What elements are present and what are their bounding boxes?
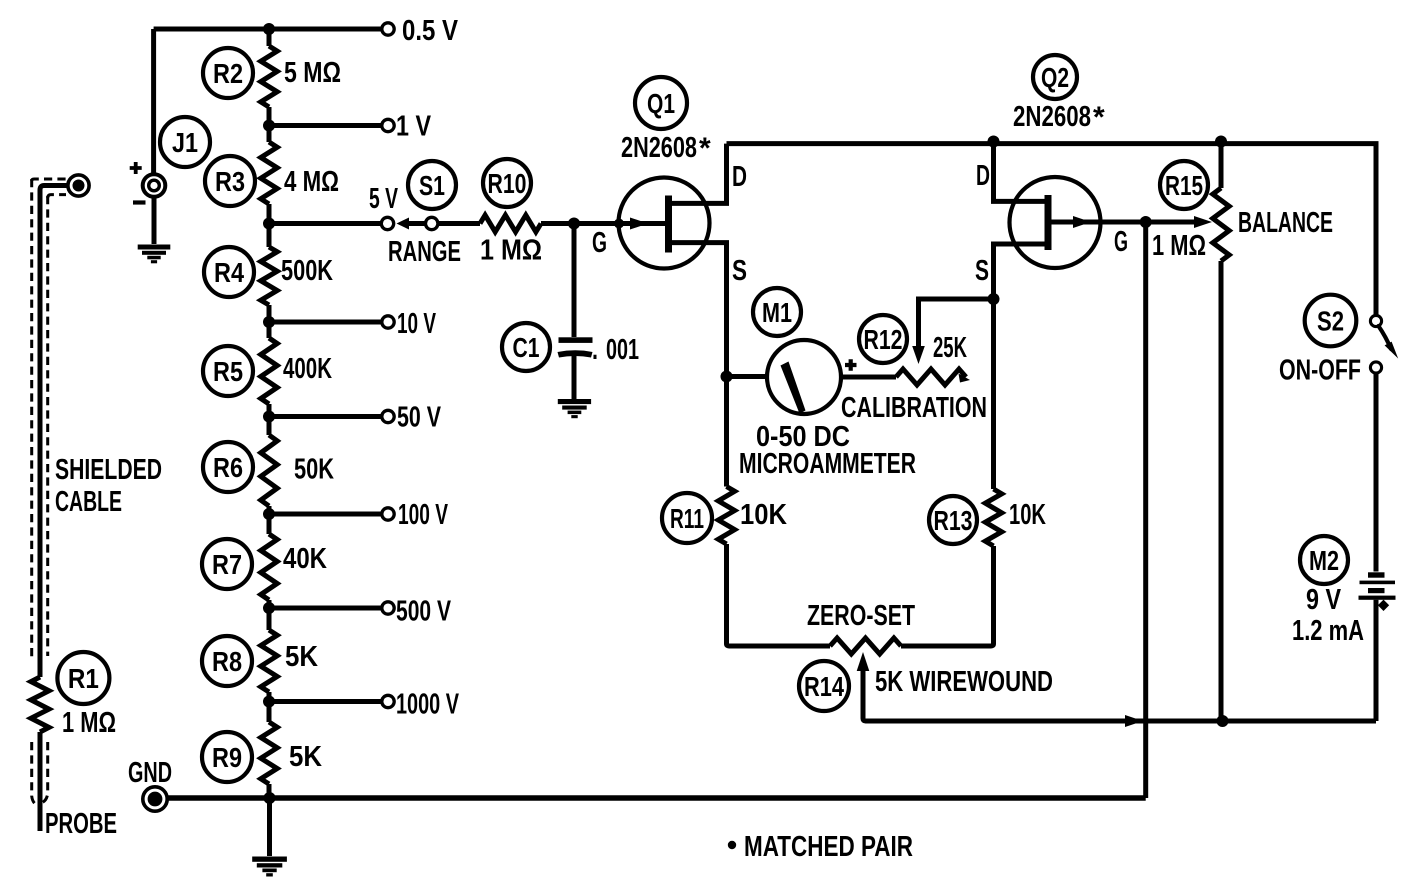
meter M1 designator — [753, 288, 801, 336]
svg-text:1000 V: 1000 V — [396, 689, 459, 721]
wire top rail to J1 — [154, 29, 269, 174]
svg-text:2N2608: 2N2608 — [621, 132, 697, 164]
wire S2 to battery — [1374, 373, 1379, 571]
wire Q2 gate to GND bus — [1143, 222, 1148, 798]
resistor R11 — [718, 487, 734, 545]
svg-text:R2: R2 — [213, 58, 243, 89]
svg-text:R15: R15 — [1165, 170, 1203, 201]
battery M2 — [1359, 572, 1396, 611]
node meter junction — [721, 371, 733, 383]
terminal 10 V — [382, 316, 394, 328]
meter M1 body — [767, 340, 841, 414]
transistor Q2 source lead — [994, 244, 1049, 299]
resistor R1 — [31, 677, 49, 732]
wire tap 100 V — [269, 512, 382, 517]
switch S1 designator — [408, 161, 456, 209]
svg-text:10 V: 10 V — [397, 308, 436, 340]
arrow on Q1 gate — [630, 218, 648, 230]
wire R13 to zero-set loop — [901, 546, 994, 646]
wire tap 0.5 V — [269, 27, 382, 32]
switch S1 wiper arrow — [397, 218, 410, 230]
node R15 bottom junction — [1217, 715, 1229, 727]
resistor R3 — [261, 142, 277, 204]
resistor R12 — [896, 369, 966, 385]
svg-text:1 V: 1 V — [396, 111, 432, 143]
node rail Q2 drain — [988, 136, 1000, 148]
svg-text:R9: R9 — [212, 742, 242, 773]
resistor R2 — [261, 46, 277, 107]
svg-text:400K: 400K — [283, 353, 332, 385]
resistor R5 — [261, 338, 277, 404]
wire node to C1 — [572, 224, 577, 338]
node tap 1 V — [263, 120, 275, 132]
svg-text:M2: M2 — [1309, 545, 1339, 576]
resistor R4 designator — [204, 247, 254, 297]
resistor R15 — [1213, 188, 1229, 261]
node tap 50 V — [263, 411, 275, 423]
value .001 (C1) — [592, 334, 639, 366]
svg-text:25K: 25K — [933, 332, 967, 364]
transistor Q1 designator — [635, 77, 687, 129]
svg-text:D: D — [976, 160, 990, 192]
svg-text:CABLE: CABLE — [55, 486, 122, 518]
svg-text:5K: 5K — [285, 641, 318, 673]
label SHIELDED CABLE — [55, 454, 162, 518]
svg-text:S: S — [732, 255, 747, 287]
node 5V tap — [263, 218, 275, 230]
transistor Q2 designator — [1033, 55, 1077, 99]
transistor Q1 drain lead — [669, 144, 727, 204]
resistor R8 designator — [202, 636, 252, 686]
wire tap 10 V — [269, 320, 382, 325]
node tap 1000 V — [263, 696, 275, 708]
wire R14 wiper to bottom rail — [863, 666, 1376, 721]
resistor R8 — [261, 630, 277, 692]
label 2N2608* (Q1) — [621, 132, 711, 165]
capacitor C1 designator — [502, 323, 550, 371]
resistor R10 — [480, 215, 541, 232]
plus mark at meter — [845, 359, 857, 370]
svg-text:R6: R6 — [213, 452, 243, 483]
svg-text:4 MΩ: 4 MΩ — [284, 166, 339, 198]
wire Q2 source to R13 — [991, 299, 996, 489]
wire J1 to ground — [152, 197, 157, 244]
resistor R9 designator — [202, 732, 252, 782]
node tap 100 V — [263, 508, 275, 520]
node Q1 gate entry — [614, 219, 624, 229]
wire R11 to zero-set loop — [727, 544, 831, 646]
svg-text:50K: 50K — [294, 454, 334, 486]
wire probe lead below R1 — [38, 732, 43, 831]
node tap 10 V — [263, 316, 275, 328]
plus mark at J1 — [130, 162, 142, 174]
resistor R13 — [985, 489, 1001, 546]
transistor Q1 body — [619, 178, 710, 269]
resistor R1 designator — [57, 652, 109, 704]
svg-text:.: . — [592, 334, 598, 366]
wire divider to bottom ground — [267, 798, 272, 856]
ground at divider bottom — [252, 857, 287, 877]
svg-text:SHIELDED: SHIELDED — [55, 454, 162, 486]
svg-text:CALIBRATION: CALIBRATION — [841, 392, 987, 424]
resistor R13 designator — [929, 496, 977, 544]
wire C1 to ground — [572, 356, 577, 399]
shielded cable dashed shield left — [32, 179, 39, 806]
resistor R10 designator — [483, 159, 531, 207]
svg-text:5K: 5K — [289, 741, 322, 773]
resistor R7 designator — [202, 539, 252, 589]
wire probe center conductor — [40, 186, 68, 678]
transistor Q1 channel bar — [665, 196, 672, 253]
svg-text:M1: M1 — [762, 297, 792, 328]
terminal 500 V — [382, 602, 394, 614]
terminal 5V contact — [381, 217, 393, 229]
resistor R14 designator — [799, 661, 849, 711]
terminal 50 V — [382, 410, 394, 422]
svg-text:Q2: Q2 — [1041, 62, 1069, 93]
svg-text:R5: R5 — [213, 356, 243, 387]
label 2N2608* (Q2) — [1013, 101, 1105, 134]
wire R15 bottom lead — [1219, 261, 1224, 721]
svg-text:S1: S1 — [419, 170, 445, 201]
resistor R2 designator — [203, 48, 253, 98]
jack GND — [143, 787, 167, 811]
arrow R12 end — [959, 374, 971, 383]
svg-text:5 MΩ: 5 MΩ — [284, 57, 341, 89]
resistor R7 — [261, 534, 277, 600]
svg-text:J1: J1 — [172, 127, 198, 158]
svg-text:1 MΩ: 1 MΩ — [62, 707, 116, 739]
node C1 junction — [568, 218, 580, 230]
svg-text:MICROAMMETER: MICROAMMETER — [739, 448, 916, 480]
svg-text:R1: R1 — [68, 663, 99, 694]
node divider GND junction — [264, 792, 276, 804]
connector J1 designator — [160, 117, 210, 167]
svg-text:R11: R11 — [670, 503, 704, 534]
wire 5V tap to selector — [269, 221, 381, 226]
svg-text:PROBE: PROBE — [45, 808, 117, 840]
terminal S2 bottom — [1370, 362, 1381, 373]
wire R15 top lead — [1219, 144, 1224, 188]
svg-text:5 V: 5 V — [369, 183, 398, 215]
svg-text:R4: R4 — [214, 257, 244, 288]
svg-text:10K: 10K — [1009, 499, 1046, 531]
terminal S1 pole — [426, 217, 438, 229]
svg-text:500K: 500K — [281, 255, 333, 287]
arrow into gate wire — [1125, 715, 1143, 727]
terminal 100 V — [382, 508, 394, 520]
svg-text:D: D — [732, 161, 747, 193]
terminal S2 top — [1370, 315, 1381, 326]
terminal 1000 V — [382, 695, 394, 707]
wire R12 wiper to Q2 source — [919, 299, 994, 351]
svg-text:40K: 40K — [283, 543, 327, 575]
arrow R14 wiper — [857, 652, 870, 671]
svg-text:10K: 10K — [740, 499, 787, 531]
svg-text:BALANCE: BALANCE — [1238, 207, 1333, 239]
wire Q1 source to R11 — [724, 377, 729, 487]
transistor Q2 gate lead — [1048, 220, 1196, 225]
jack J1 — [143, 174, 166, 197]
wire S1 to R10 — [438, 221, 480, 226]
switch S2 designator — [1305, 295, 1357, 347]
minus mark at J1 — [133, 200, 146, 204]
svg-text:MATCHED PAIR: MATCHED PAIR — [744, 831, 913, 863]
svg-text:R12: R12 — [864, 324, 903, 355]
svg-text:R7: R7 — [212, 549, 242, 580]
svg-text:G: G — [592, 227, 607, 259]
battery M2 designator — [1300, 536, 1348, 584]
svg-text:500 V: 500 V — [396, 596, 451, 628]
svg-text:Q1: Q1 — [647, 88, 675, 119]
svg-text:RANGE: RANGE — [388, 236, 461, 268]
node Q2 source junction — [988, 293, 1000, 305]
probe tip — [68, 175, 89, 196]
shielded cable dashed shield right — [41, 196, 48, 803]
wire top rail — [727, 144, 1377, 316]
svg-text:R8: R8 — [212, 646, 242, 677]
transistor Q2 channel bar — [1045, 195, 1052, 250]
svg-text:R14: R14 — [804, 671, 844, 702]
svg-text:5K WIREWOUND: 5K WIREWOUND — [875, 666, 1053, 698]
note bullet — [728, 841, 736, 849]
svg-text:*: * — [1093, 101, 1105, 134]
svg-text:G: G — [1114, 226, 1128, 258]
svg-text:R13: R13 — [934, 505, 973, 536]
svg-text:1.2 mA: 1.2 mA — [1292, 615, 1364, 647]
resistor R6 — [261, 435, 277, 506]
node Q2 gate junction — [1140, 216, 1152, 228]
svg-text:1 MΩ: 1 MΩ — [1152, 230, 1206, 262]
resistor R14 — [830, 638, 901, 654]
switch S2 blade — [1379, 326, 1392, 349]
terminal 1 V — [382, 119, 394, 131]
node tap 0.5 V — [263, 23, 275, 35]
resistor R11 designator — [662, 493, 712, 543]
shielded cable dashed shield top — [32, 179, 66, 198]
ground below J1 — [138, 245, 171, 264]
arrow R15 wiper — [1194, 216, 1212, 228]
resistor R6 designator — [203, 442, 253, 492]
svg-text:9 V: 9 V — [1306, 584, 1342, 616]
node rail R15 top — [1215, 136, 1227, 148]
wire R10 to Q1 gate — [541, 221, 668, 226]
svg-text:S: S — [975, 255, 989, 287]
resistor R5 designator — [203, 346, 253, 396]
wire Q1 source to meter — [727, 374, 768, 379]
svg-text:50 V: 50 V — [397, 402, 441, 434]
arrow R12 wiper — [912, 346, 925, 364]
resistor R9 — [261, 722, 277, 784]
svg-text:C1: C1 — [513, 332, 540, 363]
wire tap 500 V — [269, 606, 382, 611]
arrow on Q2 gate — [1073, 216, 1091, 228]
transistor Q2 body — [1010, 177, 1101, 268]
wire tap 1000 V — [269, 699, 382, 704]
transistor Q2 drain lead — [994, 144, 1049, 202]
svg-text:GND: GND — [128, 757, 172, 789]
transistor Q1 source lead — [669, 243, 727, 377]
ground below C1 — [558, 399, 591, 418]
svg-text:2N2608: 2N2608 — [1013, 101, 1091, 133]
wire battery to bottom rail — [1374, 600, 1379, 721]
meter M1 needle — [781, 362, 806, 414]
svg-text:ON-OFF: ON-OFF — [1279, 355, 1361, 387]
wire tap 50 V — [269, 414, 382, 419]
resistor R3 designator — [205, 156, 255, 206]
svg-text:100 V: 100 V — [398, 499, 448, 531]
terminal 0.5 V — [382, 23, 394, 35]
wire voltage divider chain — [267, 29, 272, 798]
resistor R15 designator — [1160, 161, 1208, 209]
svg-text:R3: R3 — [215, 166, 245, 197]
resistor R4 — [261, 247, 277, 305]
svg-text:*: * — [699, 132, 711, 165]
resistor R12 designator — [859, 315, 907, 363]
wire meter to R12 — [841, 375, 896, 380]
wire tap 1 V — [269, 123, 382, 128]
wire GND bus — [167, 795, 1146, 801]
svg-text:S2: S2 — [1317, 306, 1344, 337]
svg-text:ZERO-SET: ZERO-SET — [807, 600, 915, 632]
node tap 500 V — [263, 602, 275, 614]
svg-text:R10: R10 — [488, 168, 527, 199]
capacitor C1 — [558, 337, 593, 357]
svg-text:001: 001 — [606, 334, 639, 366]
svg-text:0.5 V: 0.5 V — [402, 15, 459, 47]
svg-text:1 MΩ: 1 MΩ — [480, 235, 542, 267]
